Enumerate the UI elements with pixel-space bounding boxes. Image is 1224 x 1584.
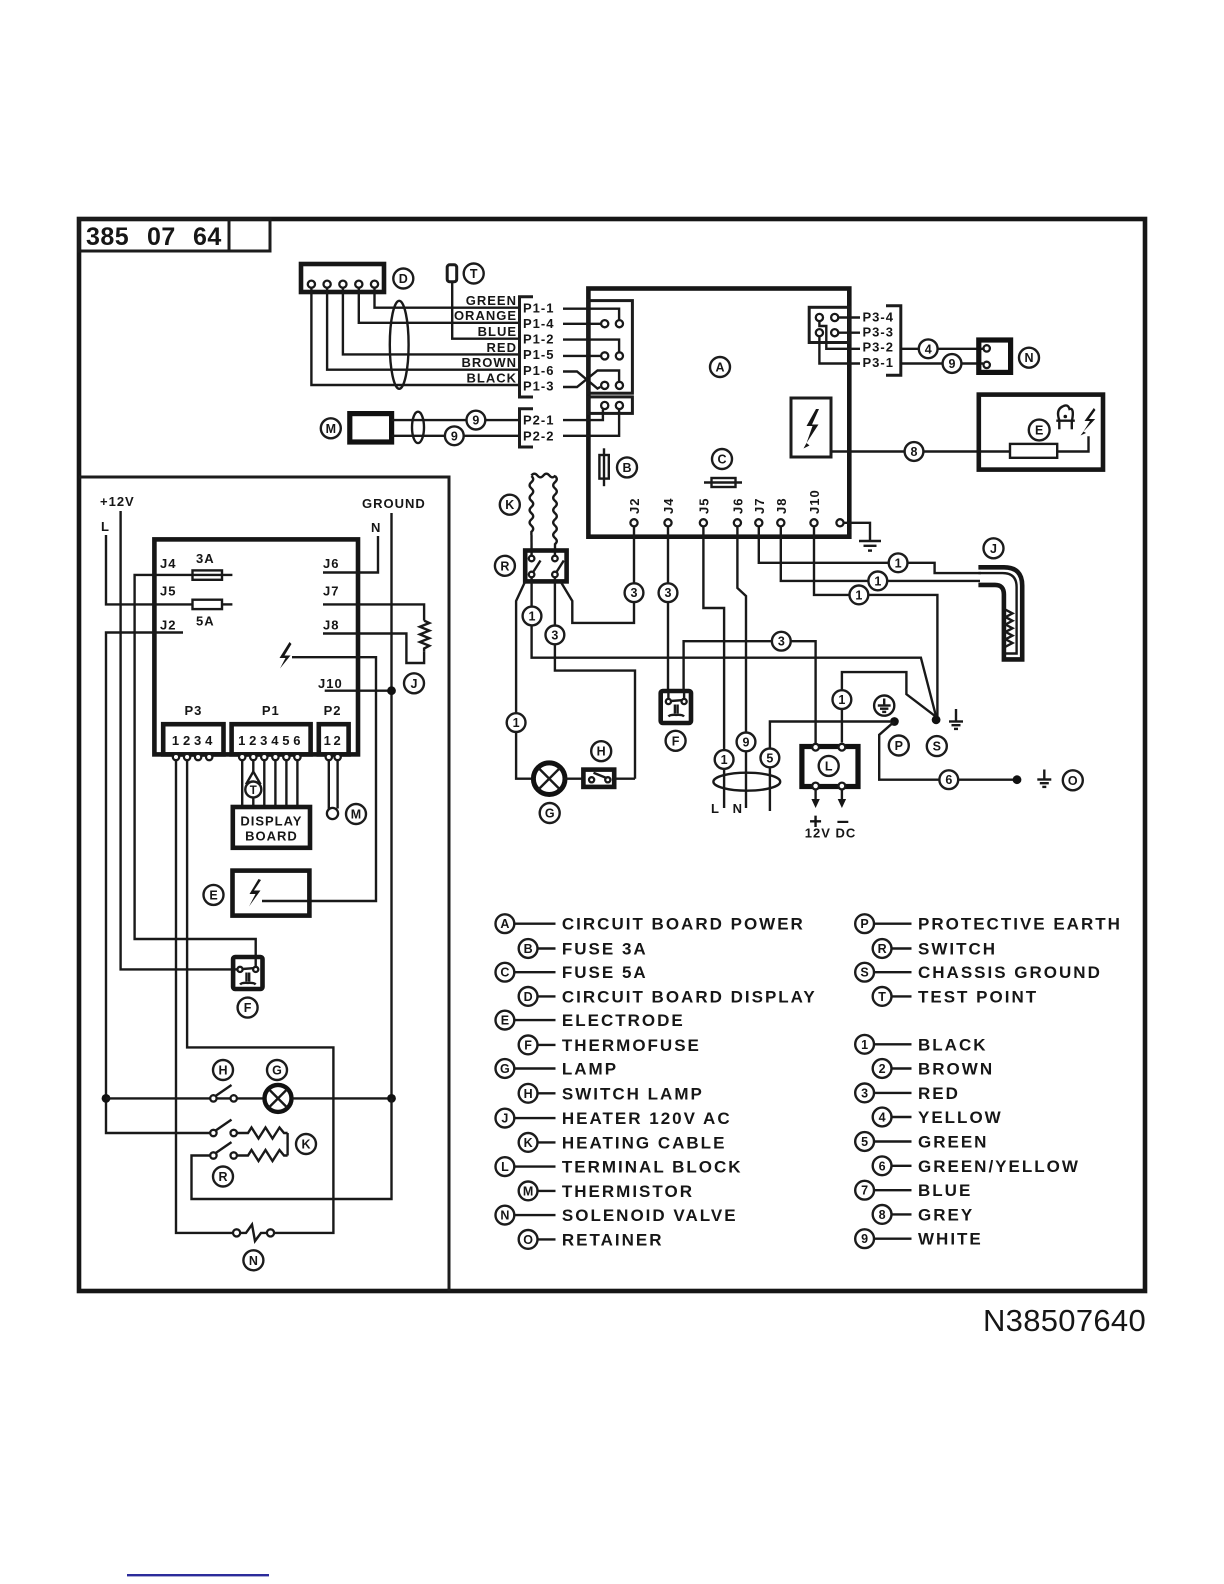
P1 harness bracket bbox=[520, 297, 534, 397]
wire N mains J6 bbox=[737, 526, 746, 808]
label N left bbox=[243, 1250, 263, 1270]
svg-text:1: 1 bbox=[721, 753, 728, 767]
legend T test point bbox=[873, 987, 1038, 1006]
wire J10 to ground line junction bbox=[325, 690, 392, 692]
solenoid valve N symbol bbox=[233, 1225, 274, 1242]
svg-text:P3-2: P3-2 bbox=[863, 339, 894, 354]
switch row 3 wire bbox=[192, 1098, 392, 1199]
legend 8 grey bbox=[873, 1205, 974, 1224]
svg-text:P2-2: P2-2 bbox=[523, 428, 554, 443]
wire white P3-1 to solenoid N bbox=[901, 362, 983, 364]
left panel divider bbox=[79, 477, 449, 1291]
blue underline mark bbox=[127, 1574, 269, 1576]
border frame bbox=[79, 219, 1145, 1291]
svg-text:BROWN: BROWN bbox=[918, 1060, 994, 1079]
svg-text:3: 3 bbox=[194, 733, 202, 748]
label 1 black lamp bbox=[507, 713, 526, 732]
protective earth node P bbox=[890, 717, 899, 726]
P1 connector on board bbox=[588, 301, 632, 394]
svg-text:BLACK: BLACK bbox=[467, 370, 518, 385]
wire P1 pin1 to display board bbox=[241, 760, 243, 807]
svg-text:J: J bbox=[501, 1112, 508, 1126]
svg-text:SOLENOID VALVE: SOLENOID VALVE bbox=[562, 1206, 738, 1225]
svg-text:P3-3: P3-3 bbox=[863, 325, 894, 340]
svg-text:07: 07 bbox=[147, 223, 176, 251]
wire black J8 to heater bottom bbox=[781, 526, 980, 581]
burner icon bbox=[1056, 405, 1075, 429]
wire white M to P2-1 bbox=[392, 419, 520, 421]
legend 7 blue bbox=[855, 1181, 972, 1200]
legend C fuse 5A bbox=[496, 963, 648, 982]
wire ORANGE D pin4 to P1-4 bbox=[359, 288, 520, 323]
heater J elbow tube outer bbox=[978, 567, 1022, 659]
svg-text:2: 2 bbox=[249, 733, 257, 748]
svg-text:N38507640: N38507640 bbox=[983, 1303, 1146, 1338]
svg-text:HEATER 120V AC: HEATER 120V AC bbox=[562, 1109, 732, 1128]
label S bbox=[927, 736, 947, 756]
retainer ground symbol bbox=[1037, 770, 1051, 787]
svg-text:RETAINER: RETAINER bbox=[562, 1230, 664, 1249]
wire P1-3 crossover to pin bbox=[563, 371, 619, 388]
wire black J10 to chassis ground bbox=[814, 526, 937, 716]
svg-text:P: P bbox=[860, 917, 868, 931]
retainer node bbox=[1013, 775, 1022, 784]
label J heater left bbox=[404, 673, 424, 693]
svg-text:A: A bbox=[715, 361, 724, 375]
svg-text:J5: J5 bbox=[696, 498, 711, 514]
svg-text:4: 4 bbox=[925, 342, 932, 356]
svg-text:6: 6 bbox=[945, 773, 952, 787]
title box 385 07 64 bbox=[79, 219, 229, 251]
mains cable ellipse bbox=[713, 773, 780, 791]
svg-text:GREY: GREY bbox=[918, 1205, 974, 1224]
P3 connector on board bbox=[809, 307, 849, 342]
svg-text:ELECTRODE: ELECTRODE bbox=[562, 1011, 685, 1030]
svg-text:9: 9 bbox=[451, 429, 458, 443]
thermistor M leads bbox=[328, 760, 330, 810]
svg-text:PROTECTIVE EARTH: PROTECTIVE EARTH bbox=[918, 915, 1122, 934]
wire GROUND down to lamp junction bbox=[390, 513, 392, 1098]
svg-text:M: M bbox=[326, 422, 336, 436]
svg-text:H: H bbox=[524, 1087, 533, 1101]
svg-text:O: O bbox=[1068, 774, 1078, 788]
switch lamp H box bbox=[583, 770, 614, 787]
label R bbox=[495, 556, 515, 576]
wires K into switch R bbox=[530, 535, 532, 556]
P2 harness bracket bbox=[520, 409, 534, 447]
svg-text:J2: J2 bbox=[160, 617, 176, 632]
svg-text:T: T bbox=[878, 990, 886, 1004]
wire board ground bbox=[844, 523, 870, 541]
svg-text:G: G bbox=[545, 807, 555, 821]
svg-text:3: 3 bbox=[861, 1086, 868, 1100]
ground symbol board A bbox=[859, 541, 881, 551]
wire GREEN D pin5 to P1-1 bbox=[375, 288, 520, 308]
svg-text:9: 9 bbox=[743, 735, 750, 749]
svg-text:H: H bbox=[218, 1064, 227, 1078]
svg-text:1: 1 bbox=[238, 733, 246, 748]
svg-text:N: N bbox=[371, 520, 381, 535]
switch row 3 bbox=[210, 1142, 237, 1159]
svg-text:F: F bbox=[244, 1001, 252, 1015]
wire terminal block to chassis ground bbox=[842, 672, 936, 742]
label 1 black J8 bbox=[868, 572, 887, 591]
legend B fuse 3A bbox=[519, 939, 648, 958]
label 9 white wire b bbox=[445, 426, 464, 445]
svg-text:F: F bbox=[524, 1038, 532, 1052]
label 3 red J2 bbox=[625, 583, 644, 602]
label 1 black terminal block bbox=[833, 690, 852, 709]
svg-text:C: C bbox=[717, 453, 726, 467]
svg-text:3A: 3A bbox=[196, 551, 215, 566]
label B bbox=[617, 457, 637, 477]
svg-text:K: K bbox=[301, 1138, 310, 1152]
svg-text:J6: J6 bbox=[730, 498, 745, 514]
svg-text:P1-2: P1-2 bbox=[523, 332, 554, 347]
svg-text:F: F bbox=[672, 734, 680, 748]
svg-text:WHITE: WHITE bbox=[918, 1230, 983, 1249]
label H left bbox=[213, 1060, 233, 1080]
svg-text:J: J bbox=[411, 677, 418, 691]
svg-text:CIRCUIT BOARD POWER: CIRCUIT BOARD POWER bbox=[562, 915, 805, 934]
legend 1 black bbox=[855, 1035, 987, 1054]
svg-text:J10: J10 bbox=[318, 676, 343, 691]
wire P3-3 bbox=[838, 332, 860, 334]
svg-text:5A: 5A bbox=[196, 614, 215, 629]
electrode spark bolt bbox=[1081, 408, 1096, 436]
svg-text:N: N bbox=[733, 801, 743, 816]
svg-text:E: E bbox=[209, 888, 217, 902]
fuse C 5A on board bbox=[704, 478, 742, 487]
svg-text:1: 1 bbox=[324, 733, 332, 748]
thermistor M bulb bbox=[327, 808, 338, 819]
svg-text:9: 9 bbox=[472, 414, 479, 428]
svg-text:T: T bbox=[250, 785, 257, 797]
legend 2 brown bbox=[873, 1059, 994, 1078]
svg-text:SWITCH LAMP: SWITCH LAMP bbox=[562, 1084, 704, 1103]
svg-text:YELLOW: YELLOW bbox=[918, 1108, 1003, 1127]
connector P1 on left board bbox=[232, 724, 311, 760]
display board D bbox=[233, 807, 310, 848]
junction J10 ground bbox=[387, 686, 396, 695]
wire grey spark to electrode E bbox=[831, 450, 1010, 452]
svg-text:C: C bbox=[500, 966, 509, 980]
label 6 green yellow bbox=[939, 770, 958, 789]
wire P2-2 to pin bbox=[563, 410, 619, 436]
circuit board power A outline bbox=[588, 289, 849, 537]
wire P3-1 internal bbox=[819, 337, 860, 364]
svg-text:TEST POINT: TEST POINT bbox=[918, 987, 1038, 1006]
protective earth symbol bbox=[874, 696, 894, 716]
spark bolt icon bbox=[804, 409, 820, 449]
wire H to red riser bbox=[614, 778, 635, 780]
svg-text:E: E bbox=[1035, 424, 1043, 438]
svg-text:3: 3 bbox=[778, 635, 785, 649]
legend E electrode bbox=[496, 1011, 685, 1030]
svg-text:6: 6 bbox=[879, 1159, 886, 1173]
svg-text:B: B bbox=[524, 942, 533, 956]
label E left bbox=[204, 885, 224, 905]
switch row 2 bbox=[210, 1120, 237, 1137]
svg-text:GREEN: GREEN bbox=[918, 1133, 988, 1152]
svg-text:P1-1: P1-1 bbox=[523, 301, 554, 316]
heater J inner wall bbox=[978, 573, 1016, 653]
wire black J7 to heater top bbox=[759, 526, 981, 573]
svg-text:BLUE: BLUE bbox=[918, 1181, 972, 1200]
svg-text:D: D bbox=[399, 272, 408, 286]
svg-text:P: P bbox=[895, 739, 903, 753]
wire white M to P2-2 bbox=[392, 435, 520, 437]
label 1 black J7 bbox=[889, 553, 908, 572]
label E bbox=[1029, 420, 1050, 441]
thermistor M body bbox=[321, 418, 341, 438]
svg-text:THERMISTOR: THERMISTOR bbox=[562, 1182, 694, 1201]
legend P protective earth bbox=[855, 914, 1122, 933]
svg-text:O: O bbox=[523, 1233, 533, 1247]
svg-text:9: 9 bbox=[861, 1232, 868, 1246]
svg-text:B: B bbox=[622, 461, 631, 475]
svg-text:RED: RED bbox=[918, 1084, 960, 1103]
wire P1-6 crossover to pin bbox=[563, 372, 600, 389]
svg-text:L: L bbox=[101, 519, 110, 534]
svg-text:J2: J2 bbox=[627, 498, 642, 514]
thermistor cable ellipse bbox=[412, 412, 424, 443]
svg-text:J10: J10 bbox=[807, 489, 822, 514]
svg-text:RED: RED bbox=[487, 340, 517, 355]
legend H switch lamp bbox=[519, 1084, 704, 1103]
cable bundle ellipse bbox=[390, 301, 409, 389]
svg-text:3: 3 bbox=[260, 733, 268, 748]
wire L to J5 bbox=[106, 535, 193, 604]
board bottom pins J2 J4 J5 J6 J7 J8 J10 bbox=[630, 519, 843, 526]
legend 5 green bbox=[855, 1132, 988, 1151]
rotated pin labels bbox=[627, 489, 822, 514]
svg-text:385: 385 bbox=[86, 223, 129, 251]
svg-text:GROUND: GROUND bbox=[362, 496, 426, 511]
svg-text:J8: J8 bbox=[323, 617, 339, 632]
heater element zigzag bbox=[1006, 610, 1013, 647]
heating cable K resistor lower bbox=[237, 1150, 288, 1161]
svg-text:BLUE: BLUE bbox=[478, 324, 517, 339]
wire lamp to ground line junction bbox=[292, 1097, 392, 1099]
svg-text:1: 1 bbox=[855, 588, 862, 602]
svg-text:FUSE 5A: FUSE 5A bbox=[562, 963, 648, 982]
wire BLUE test point to P1-2 bbox=[452, 282, 519, 339]
svg-text:5: 5 bbox=[861, 1135, 868, 1149]
left circuit board outline bbox=[154, 539, 358, 754]
svg-text:S: S bbox=[933, 740, 941, 754]
svg-text:L: L bbox=[501, 1160, 509, 1174]
svg-text:M: M bbox=[351, 808, 361, 822]
connector P2 on left board bbox=[319, 724, 349, 760]
wire green P to cable bbox=[770, 722, 890, 812]
svg-text:64: 64 bbox=[193, 223, 222, 251]
svg-text:FUSE 3A: FUSE 3A bbox=[562, 940, 648, 959]
wire yellow P3-2 to solenoid N bbox=[901, 348, 983, 350]
svg-text:CHASSIS GROUND: CHASSIS GROUND bbox=[918, 963, 1102, 982]
svg-text:8: 8 bbox=[879, 1208, 886, 1222]
svg-text:K: K bbox=[524, 1136, 533, 1150]
svg-text:M: M bbox=[523, 1184, 533, 1198]
wire RED D pin3 to P1-5 bbox=[343, 288, 520, 354]
label 4 yellow bbox=[919, 339, 938, 358]
label 1 black L mains bbox=[715, 750, 734, 769]
svg-text:+12V: +12V bbox=[100, 494, 135, 509]
svg-text:3: 3 bbox=[665, 586, 672, 600]
test point diamond on P1 pin2 bbox=[245, 760, 261, 807]
lamp G bbox=[533, 763, 565, 795]
fuse 3A with wire bbox=[135, 551, 256, 959]
lamp G left bbox=[265, 1085, 292, 1112]
svg-text:G: G bbox=[272, 1064, 282, 1078]
wire P1-5 to pin bbox=[563, 355, 601, 357]
svg-text:H: H bbox=[597, 745, 606, 759]
svg-text:G: G bbox=[500, 1062, 510, 1076]
wire red J4 to thermofuse F bbox=[667, 526, 669, 692]
wire black R to J4 row bbox=[532, 577, 937, 716]
label H bbox=[591, 741, 611, 761]
label N bbox=[1019, 348, 1039, 368]
svg-text:SWITCH: SWITCH bbox=[918, 940, 997, 959]
label 5 green bbox=[761, 749, 780, 768]
wire P1-1 to pin bbox=[563, 309, 619, 320]
wire N to J6 bbox=[323, 536, 378, 573]
label 3 red R bbox=[546, 626, 565, 645]
switch R box bbox=[525, 551, 566, 582]
wire +12V to thermofuse F bbox=[121, 511, 234, 969]
wire P3 pin2 to solenoid right side bbox=[187, 760, 333, 1233]
svg-text:1: 1 bbox=[838, 693, 845, 707]
svg-text:R: R bbox=[500, 559, 509, 573]
svg-text:BROWN: BROWN bbox=[461, 355, 517, 370]
svg-text:TERMINAL BLOCK: TERMINAL BLOCK bbox=[562, 1158, 743, 1177]
label T bbox=[464, 264, 484, 284]
svg-text:N: N bbox=[249, 1254, 258, 1268]
label O bbox=[1063, 770, 1083, 790]
legend R switch bbox=[873, 939, 997, 958]
P3 harness bracket bbox=[886, 306, 901, 376]
svg-text:J5: J5 bbox=[160, 584, 176, 599]
connector D (circuit board display header) bbox=[301, 264, 384, 292]
svg-text:J4: J4 bbox=[661, 498, 676, 514]
svg-text:12V DC: 12V DC bbox=[805, 826, 857, 841]
label J heater bbox=[984, 538, 1004, 558]
legend O retainer bbox=[519, 1230, 664, 1249]
electrode resistor body bbox=[1010, 444, 1057, 458]
label 8 grey bbox=[905, 442, 924, 461]
svg-text:S: S bbox=[860, 966, 868, 980]
thermofuse F box left bbox=[233, 957, 262, 989]
legend L terminal block bbox=[496, 1157, 743, 1176]
svg-text:E: E bbox=[501, 1014, 509, 1028]
svg-text:1: 1 bbox=[895, 556, 902, 570]
heater 120V AC coil resistor bbox=[420, 621, 429, 652]
label 9 white bbox=[943, 354, 962, 373]
svg-text:P3-4: P3-4 bbox=[863, 310, 894, 325]
label D bbox=[393, 269, 413, 289]
svg-text:J8: J8 bbox=[774, 498, 789, 514]
wire BLACK D pin1 to P1-3 bbox=[311, 288, 519, 385]
label M bbox=[346, 804, 366, 824]
svg-text:P1: P1 bbox=[262, 703, 280, 718]
label K bbox=[500, 495, 520, 515]
svg-text:THERMOFUSE: THERMOFUSE bbox=[562, 1036, 701, 1055]
wire BROWN D pin2 to P1-6 bbox=[327, 288, 519, 370]
svg-text:3: 3 bbox=[551, 628, 558, 642]
svg-text:5: 5 bbox=[766, 751, 773, 765]
wire lamp to switch H bbox=[564, 778, 584, 780]
svg-text:CIRCUIT BOARD DISPLAY: CIRCUIT BOARD DISPLAY bbox=[562, 987, 817, 1006]
wire 12V plus lead bbox=[814, 790, 816, 800]
wire red J2 to R flare bbox=[561, 526, 635, 623]
wire L mains J5 bbox=[703, 526, 724, 808]
wire P1-2 to pin bbox=[563, 340, 619, 352]
chassis ground symbol S bbox=[949, 709, 963, 729]
wire P3 pin1 to solenoid row bbox=[176, 760, 232, 1233]
fuse B 3A on board bbox=[599, 448, 608, 486]
label K left bbox=[296, 1134, 316, 1154]
heating cable K tube bbox=[530, 474, 557, 548]
svg-text:R: R bbox=[878, 942, 887, 956]
svg-text:2: 2 bbox=[333, 733, 341, 748]
svg-text:R: R bbox=[218, 1170, 227, 1184]
fuse 5A bbox=[193, 600, 233, 629]
legend 6 green yellow bbox=[873, 1156, 1080, 1175]
svg-text:4: 4 bbox=[879, 1111, 886, 1125]
legend M thermistor bbox=[519, 1182, 694, 1201]
label 9 white wire a bbox=[467, 411, 486, 430]
svg-text:T: T bbox=[470, 267, 478, 281]
svg-text:J7: J7 bbox=[323, 584, 339, 599]
legend K heating cable bbox=[519, 1133, 727, 1152]
svg-text:4: 4 bbox=[271, 733, 279, 748]
electrode E box bbox=[979, 395, 1103, 470]
svg-text:J: J bbox=[990, 542, 997, 556]
svg-text:P3-1: P3-1 bbox=[863, 355, 894, 370]
svg-text:P2: P2 bbox=[324, 703, 342, 718]
svg-text:J4: J4 bbox=[160, 556, 176, 571]
svg-text:8: 8 bbox=[911, 445, 918, 459]
svg-text:2: 2 bbox=[183, 733, 191, 748]
wire 12V minus lead bbox=[841, 790, 843, 800]
legend 4 yellow bbox=[873, 1108, 1003, 1127]
svg-text:3: 3 bbox=[631, 586, 638, 600]
label 3 red F bbox=[772, 632, 791, 651]
svg-text:1: 1 bbox=[172, 733, 180, 748]
spark generator box on board bbox=[791, 398, 831, 457]
svg-text:5: 5 bbox=[282, 733, 290, 748]
label L bbox=[819, 756, 839, 776]
wire R flare to lamp G bbox=[516, 581, 534, 778]
svg-text:A: A bbox=[500, 917, 509, 931]
terminal block L bbox=[802, 744, 858, 790]
svg-text:P1-4: P1-4 bbox=[523, 316, 554, 331]
label A bbox=[710, 357, 730, 377]
wire green yellow P to retainer bbox=[879, 722, 1014, 780]
svg-text:GREEN: GREEN bbox=[466, 293, 517, 308]
svg-text:P1-5: P1-5 bbox=[523, 347, 554, 362]
svg-text:1: 1 bbox=[861, 1038, 868, 1052]
thermofuse F box bbox=[661, 691, 691, 723]
label 1 black R bbox=[523, 607, 542, 626]
svg-text:L: L bbox=[711, 801, 720, 816]
wire P3-4 bbox=[838, 316, 860, 318]
svg-text:ORANGE: ORANGE bbox=[454, 308, 517, 323]
wire coil to J8 bbox=[323, 634, 424, 664]
svg-text:4: 4 bbox=[205, 733, 213, 748]
wire lamp row bbox=[106, 1097, 266, 1099]
label P bbox=[889, 736, 909, 756]
